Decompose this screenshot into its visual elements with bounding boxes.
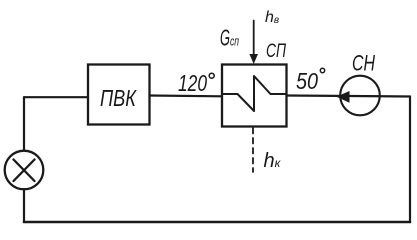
wire bottom return line	[24, 221, 410, 224]
pump СН circle	[340, 76, 380, 116]
wire left riser down to pump	[23, 97, 25, 150]
steam inlet arrow into СП	[249, 21, 258, 65]
wire right riser	[409, 97, 411, 223]
svg-text:СН: СН	[352, 51, 375, 76]
wire from ПВК left side to left riser	[24, 96, 88, 98]
degree mark of 120°	[209, 73, 214, 78]
svg-text:hк: hк	[264, 150, 282, 172]
svg-text:СП: СП	[266, 41, 286, 62]
wire right riser to СН pump and on to СП	[287, 96, 411, 97]
degree mark of 50°	[320, 68, 324, 72]
svg-text:ПВК: ПВК	[100, 85, 137, 111]
svg-text:Gсп: Gсп	[220, 25, 239, 51]
svg-text:50: 50	[296, 68, 318, 94]
wire pump bottom to return line	[23, 191, 25, 223]
heat exchanger СП box	[222, 65, 287, 127]
wire ПВК to СП (120° supply line)	[150, 94, 223, 97]
heat exchanger zigzag coil	[222, 76, 287, 111]
pump ⊗ bottom-left circle	[5, 151, 44, 190]
boiler ПВК box	[88, 65, 150, 125]
condensate dashed line	[252, 128, 254, 172]
svg-text:120: 120	[178, 70, 207, 96]
flow arrowhead in СН pump	[337, 91, 350, 103]
svg-text:hв: hв	[265, 9, 279, 26]
